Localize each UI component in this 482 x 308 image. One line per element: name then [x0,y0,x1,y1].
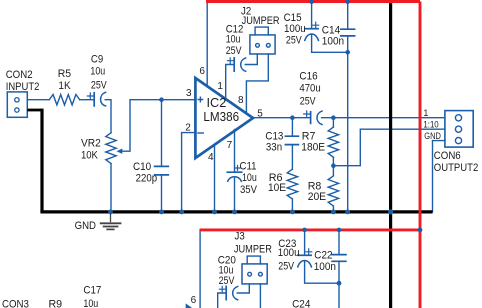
svg-text:470u: 470u [299,83,320,95]
svg-text:OUTPUT2: OUTPUT2 [434,162,479,174]
svg-text:100u: 100u [284,23,306,35]
svg-text:25V: 25V [219,275,235,287]
svg-text:10u: 10u [226,34,241,46]
svg-text:8: 8 [238,95,244,106]
svg-text:CON3: CON3 [2,298,29,308]
svg-text:10E: 10E [268,182,286,194]
svg-text:20E: 20E [308,191,326,203]
svg-text:25V: 25V [278,261,294,273]
svg-text:100n: 100n [314,261,336,273]
svg-text:C17: C17 [83,285,101,297]
svg-text:33n: 33n [266,142,282,154]
svg-text:J3: J3 [235,230,245,242]
svg-text:220p: 220p [136,173,158,185]
svg-text:IC2: IC2 [207,95,227,110]
svg-text:7: 7 [227,140,233,151]
svg-text:GND: GND [75,220,96,232]
svg-text:C10: C10 [133,161,151,173]
svg-text:25V: 25V [286,35,302,47]
svg-text:R9: R9 [49,298,63,308]
svg-text:INPUT2: INPUT2 [6,81,40,93]
svg-text:1: 1 [423,108,428,118]
svg-text:JUMPER: JUMPER [234,244,272,256]
svg-text:180E: 180E [301,142,325,154]
svg-text:10u: 10u [90,66,105,78]
svg-text:6: 6 [191,295,197,306]
svg-text:10u: 10u [242,172,257,184]
svg-text:R7: R7 [302,130,316,142]
svg-text:100n: 100n [322,36,344,48]
svg-text:5: 5 [257,108,263,119]
svg-text:35V: 35V [240,184,258,196]
svg-text:25V: 25V [91,79,107,91]
svg-text:10K: 10K [81,150,98,162]
svg-text:6: 6 [199,66,205,77]
svg-text:C13: C13 [265,130,283,142]
svg-text:C15: C15 [284,12,302,24]
svg-text:CON6: CON6 [434,150,461,162]
svg-text:25V: 25V [300,95,316,107]
svg-text:100u: 100u [278,247,300,259]
svg-text:CON2: CON2 [6,69,33,81]
svg-text:GND: GND [424,131,441,141]
svg-text:2: 2 [185,123,191,134]
svg-text:C24: C24 [292,298,310,308]
svg-text:3: 3 [186,88,192,99]
svg-text:1: 1 [217,81,223,92]
svg-text:1:10: 1:10 [423,120,438,130]
svg-text:10u: 10u [83,298,98,308]
svg-text:R5: R5 [58,68,71,80]
svg-text:C22: C22 [314,250,332,262]
svg-text:C16: C16 [299,70,317,82]
svg-text:25V: 25V [226,45,242,57]
svg-text:1K: 1K [58,80,71,92]
svg-text:C9: C9 [91,53,103,65]
svg-text:LM386: LM386 [203,109,239,124]
svg-text:VR2: VR2 [81,137,101,149]
svg-text:4: 4 [208,152,214,163]
svg-text:JUMPER: JUMPER [242,15,280,27]
